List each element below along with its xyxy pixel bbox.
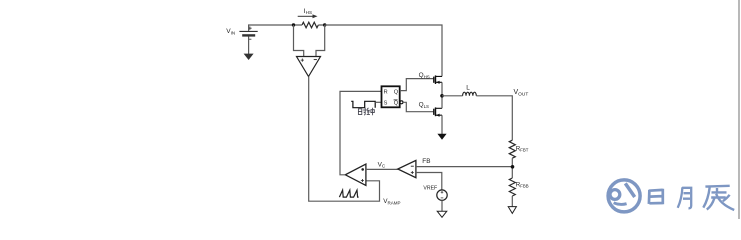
right page border xyxy=(738,0,740,219)
node right of RS xyxy=(323,23,326,26)
label IHS xyxy=(304,8,312,15)
wire rail to HS drain xyxy=(325,25,442,76)
svg-text:R: R xyxy=(384,90,388,96)
svg-text:L: L xyxy=(466,85,470,92)
battery V1 xyxy=(239,27,257,40)
label RFBB xyxy=(516,181,529,188)
wire VC (comparator input to error amp output) xyxy=(366,168,398,170)
wire inductor to VOUT corner xyxy=(476,96,512,140)
svg-text:IHS: IHS xyxy=(304,8,312,15)
svg-text:Q: Q xyxy=(394,101,399,107)
svg-text:RFBT: RFBT xyxy=(516,145,529,152)
logo char 月 xyxy=(678,187,692,209)
label QLS xyxy=(419,102,429,109)
svg-text:VREF: VREF xyxy=(423,186,437,192)
svg-text:QHS: QHS xyxy=(419,72,430,79)
logo icon circle xyxy=(608,180,640,212)
label QHS xyxy=(419,72,430,79)
wire Qbar to LS gate xyxy=(403,102,434,111)
label clock (时钟) xyxy=(358,108,374,116)
label VRAMP xyxy=(383,198,400,205)
ground (LS, filled arrow) xyxy=(437,134,446,140)
ground (VREF, open) xyxy=(437,211,447,217)
switch node xyxy=(440,94,444,98)
wire node-resistor-node xyxy=(294,24,325,26)
wire node to inductor xyxy=(442,95,463,97)
logo char 日 xyxy=(649,189,663,204)
transistor QHS xyxy=(434,75,442,84)
latch pin labels xyxy=(384,90,399,107)
label RFBT xyxy=(516,145,529,152)
svg-text:RFBB: RFBB xyxy=(516,181,529,188)
resistor RFBT xyxy=(509,140,515,158)
label VOUT xyxy=(514,89,529,98)
Qbar overbar xyxy=(394,99,398,101)
wire RFBB to ground xyxy=(511,196,513,207)
label VC xyxy=(378,161,386,168)
wire comparator output up to latch R xyxy=(340,91,382,174)
wire VREF to ground xyxy=(441,200,443,211)
current arrow IHS xyxy=(298,14,318,18)
svg-text:VRAMP: VRAMP xyxy=(383,198,400,205)
wire Q to HS gate xyxy=(400,79,434,91)
wire LS source to ground xyxy=(441,115,443,134)
svg-text:VIN: VIN xyxy=(226,28,235,35)
ground (FBB, open) xyxy=(508,207,516,214)
wire sense left to amp xyxy=(294,25,304,56)
wire FB xyxy=(416,166,513,168)
wire HS source to switch node xyxy=(441,82,443,96)
svg-text:S: S xyxy=(384,101,388,107)
error amp U3 xyxy=(398,160,416,177)
wire U1 output down to ramp bus xyxy=(309,77,380,202)
sawtooth ramp symbol xyxy=(339,190,358,197)
latch U4 (SR) xyxy=(382,86,400,107)
wire battery to rail xyxy=(249,25,294,31)
transistor QLS xyxy=(434,107,442,116)
wire sense right to amp xyxy=(316,25,325,56)
op-amp U1 (current sense amp) xyxy=(297,57,321,77)
svg-text:VOUT: VOUT xyxy=(514,89,529,98)
node FB xyxy=(511,165,515,169)
resistor RFBB xyxy=(509,178,515,196)
logo char 辰 xyxy=(703,186,734,210)
wire battery to ground xyxy=(248,37,250,55)
node VIN label xyxy=(226,28,235,35)
source VREF xyxy=(437,190,447,200)
node left of RS xyxy=(292,23,295,26)
svg-text:QLS: QLS xyxy=(419,102,429,109)
resistor RS (sense) xyxy=(302,22,318,28)
wire error amp + to VREF xyxy=(416,173,442,190)
svg-text:VC: VC xyxy=(378,161,386,168)
svg-text:Q: Q xyxy=(394,90,399,96)
wire clock to S xyxy=(375,101,381,103)
ground (VIN, filled arrow) xyxy=(244,54,254,60)
clock source waveform xyxy=(351,101,375,107)
wire RFBT to FB node xyxy=(511,158,513,178)
inductor L xyxy=(463,92,477,96)
comparator U2 (PWM) xyxy=(345,164,366,185)
svg-text:FB: FB xyxy=(422,158,430,165)
wire LS drain to switch node xyxy=(441,96,443,109)
Qbar bubble xyxy=(400,101,403,104)
